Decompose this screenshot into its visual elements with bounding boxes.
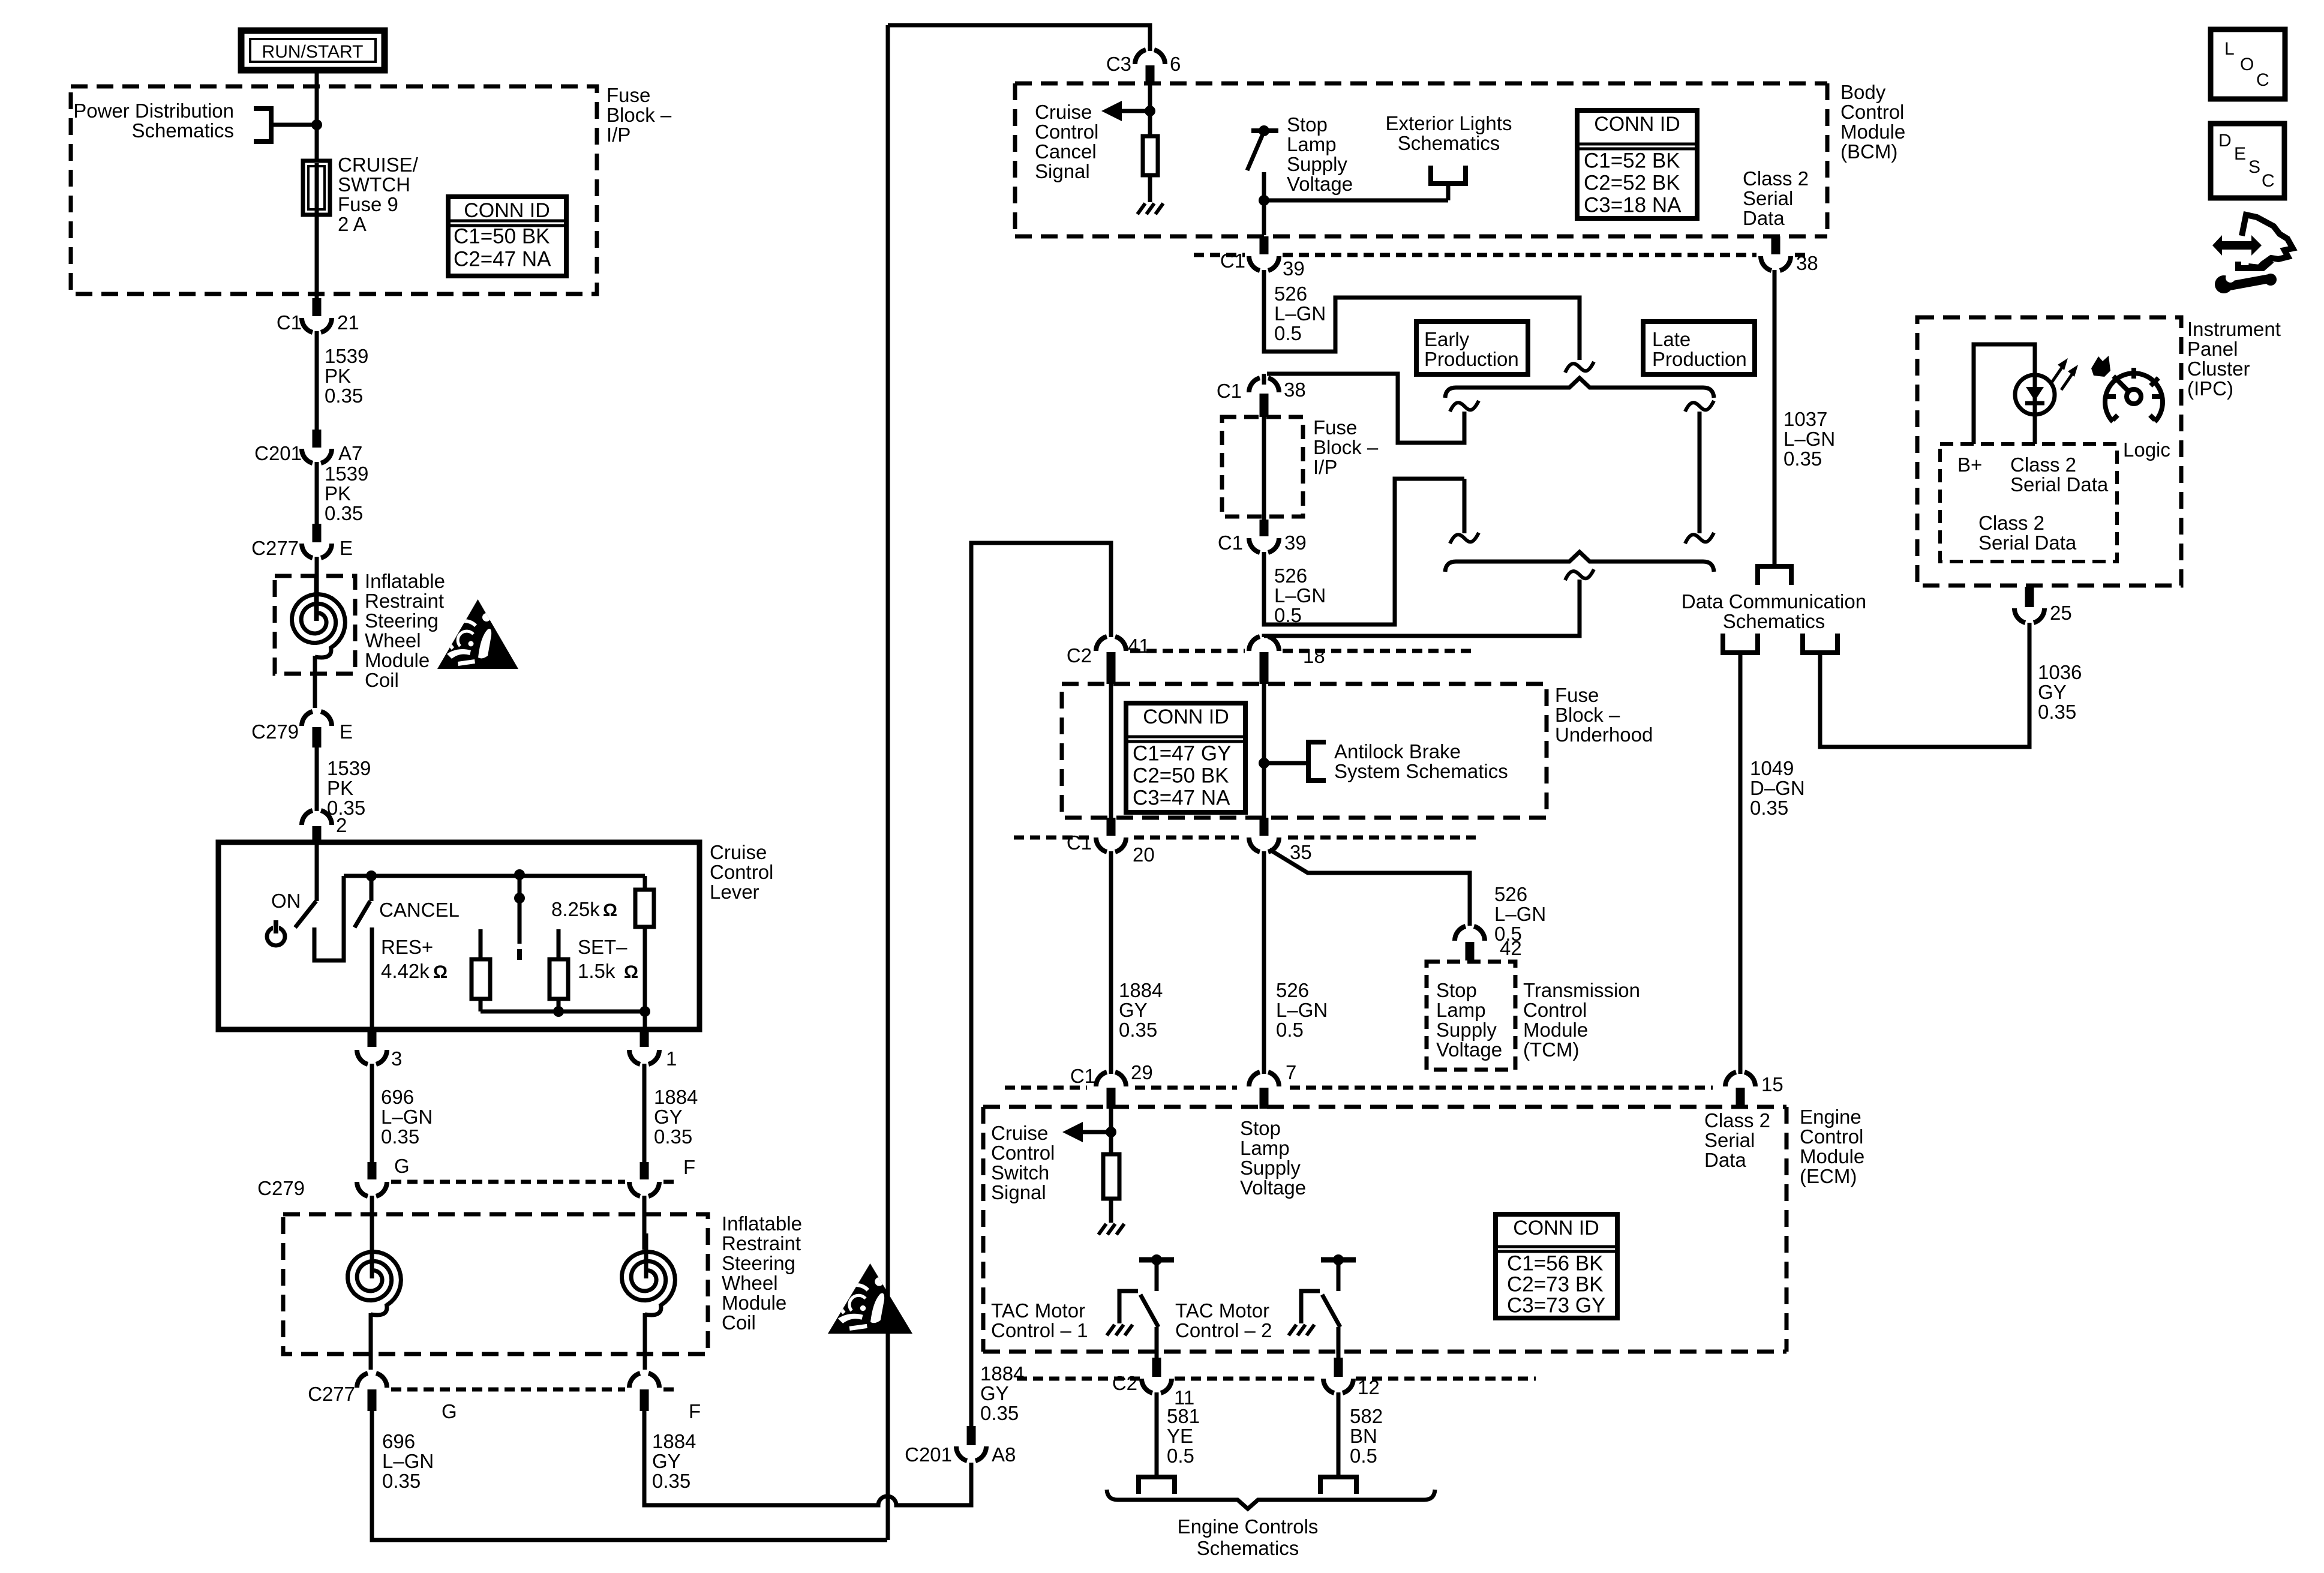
LED indicator IPC	[2015, 375, 2055, 415]
svg-text:TAC Motor: TAC Motor	[991, 1299, 1085, 1322]
wire label 526 L-GN 0.5 (d)	[1276, 979, 1328, 1041]
svg-text:Class 2: Class 2	[1743, 167, 1809, 190]
wire label 1884 GY 0.35 (lower)	[652, 1430, 696, 1492]
connector C1-21	[277, 298, 359, 334]
svg-text:Transmission: Transmission	[1523, 979, 1640, 1001]
coil dashed box upper	[275, 576, 355, 674]
svg-text:C1=47 GY: C1=47 GY	[1133, 742, 1231, 766]
label G lower	[442, 1400, 457, 1422]
LED light arrows	[2051, 358, 2078, 390]
fuse block I/P dashed box	[71, 86, 597, 294]
svg-text:42: 42	[1500, 937, 1522, 959]
svg-text:0.35: 0.35	[2038, 701, 2076, 723]
svg-text:Wheel: Wheel	[722, 1272, 778, 1294]
svg-text:PK: PK	[327, 777, 353, 799]
svg-text:39: 39	[1284, 532, 1307, 554]
svg-text:Supply: Supply	[1287, 153, 1347, 175]
connector 15	[1725, 1072, 1783, 1109]
svg-text:Class 2: Class 2	[2010, 454, 2076, 476]
label SET- 1.5k	[578, 936, 638, 982]
wire inside small fuse box	[1262, 417, 1266, 520]
svg-text:C1: C1	[1070, 1065, 1095, 1087]
steering coil lower-right spiral	[622, 1233, 675, 1315]
junction dot wiper tap	[514, 869, 525, 880]
fuse F9 CRUISE/SWTCH	[303, 161, 330, 215]
wire 12 down	[1337, 1392, 1341, 1476]
wiper switch stub	[517, 949, 522, 960]
wire break C1-39 end	[1565, 362, 1594, 373]
wire power distribution tap	[271, 123, 317, 127]
svg-text:CONN ID: CONN ID	[464, 199, 550, 222]
svg-text:Late: Late	[1652, 328, 1691, 350]
svg-text:0.5: 0.5	[1276, 1019, 1304, 1041]
wire lever pin2 down	[315, 845, 319, 901]
wire break late lower	[1685, 533, 1714, 544]
svg-text:39: 39	[1283, 257, 1305, 280]
wire pin1 inside lever	[643, 1011, 647, 1029]
svg-text:0.35: 0.35	[654, 1125, 692, 1148]
svg-text:L–GN: L–GN	[1494, 903, 1546, 925]
wire stop lamp down to C1-39	[1262, 200, 1266, 235]
svg-text:C1=52 BK: C1=52 BK	[1584, 149, 1680, 173]
wire cancel to pin3	[370, 927, 374, 1029]
wire C279-G to coil2a	[370, 1196, 374, 1250]
svg-text:Instrument: Instrument	[2187, 318, 2281, 340]
label Fuse Block IP small	[1313, 416, 1379, 478]
resistor cancel signal BCM	[1143, 111, 1158, 202]
wire C1-39-II loop up	[1264, 479, 1464, 625]
wire 3 to C279-G	[370, 1064, 374, 1162]
svg-text:F: F	[689, 1400, 701, 1422]
svg-text:2: 2	[336, 814, 347, 836]
svg-text:Module: Module	[722, 1292, 786, 1314]
svg-text:Block –: Block –	[1313, 436, 1379, 458]
junction dot cruise switch signal	[1106, 1127, 1116, 1137]
stop lamp switch blade	[1247, 136, 1262, 170]
svg-text:Control: Control	[991, 1142, 1055, 1164]
wire C279-F to coil2b	[642, 1196, 647, 1250]
svg-text:696: 696	[382, 1430, 415, 1452]
svg-text:526: 526	[1274, 565, 1307, 587]
off-page bracket exterior lights	[1431, 166, 1466, 200]
TAC motor switch 2	[1289, 1254, 1356, 1358]
svg-text:L–GN: L–GN	[1783, 428, 1835, 450]
svg-text:C2=50 BK: C2=50 BK	[1133, 764, 1229, 788]
svg-text:C1=56 BK: C1=56 BK	[1507, 1252, 1604, 1275]
svg-text:Engine Controls: Engine Controls	[1178, 1515, 1319, 1538]
svg-text:C1: C1	[1217, 380, 1242, 402]
svg-text:Class 2: Class 2	[1978, 512, 2044, 534]
svg-text:Cancel: Cancel	[1035, 140, 1097, 163]
svg-text:L–GN: L–GN	[1274, 584, 1326, 607]
svg-text:1884: 1884	[654, 1086, 698, 1108]
svg-text:Schematics: Schematics	[1197, 1537, 1299, 1559]
svg-text:C277: C277	[251, 537, 299, 559]
connector row C1-20/35	[1014, 836, 1476, 840]
label Cruise Control Switch Signal	[991, 1122, 1055, 1203]
svg-text:Control: Control	[1800, 1125, 1863, 1148]
svg-text:0.35: 0.35	[1783, 448, 1822, 470]
resistor cruise switch signal	[1103, 1132, 1119, 1223]
svg-text:C: C	[2256, 70, 2269, 90]
svg-text:Power Distribution: Power Distribution	[73, 100, 234, 122]
connector 35	[1249, 818, 1312, 863]
off-page bracket power distribution	[254, 109, 271, 142]
connector 38 BCM	[1761, 236, 1818, 274]
svg-text:Class 2: Class 2	[1704, 1109, 1770, 1131]
svg-text:C1: C1	[1067, 831, 1092, 854]
wire break early lower	[1450, 533, 1479, 544]
svg-text:G: G	[394, 1155, 410, 1177]
connector 7	[1249, 1061, 1296, 1109]
svg-text:Lamp: Lamp	[1240, 1137, 1290, 1159]
svg-text:1539: 1539	[325, 345, 368, 367]
svg-text:0.35: 0.35	[325, 385, 363, 407]
svg-text:35: 35	[1290, 841, 1312, 863]
CONN ID table BCM	[1577, 110, 1697, 218]
junction dot power tap	[311, 119, 322, 130]
svg-text:SET–: SET–	[578, 936, 627, 958]
CONN ID table ECM	[1496, 1214, 1617, 1318]
svg-text:3: 3	[391, 1047, 402, 1070]
wiper switch upper	[514, 875, 525, 944]
instrument panel cluster dashed box	[1917, 317, 2181, 586]
fuse block IP small dashed box	[1222, 417, 1303, 517]
svg-text:GY: GY	[1119, 999, 1148, 1021]
svg-text:RES+: RES+	[381, 936, 433, 958]
svg-text:Control: Control	[1523, 999, 1587, 1021]
label Inflatable Restraint Steering Wheel Module Coil (upper)	[365, 570, 445, 691]
svg-text:Control – 2: Control – 2	[1175, 1319, 1272, 1341]
svg-text:Early: Early	[1424, 328, 1470, 350]
wrench icon	[2215, 273, 2277, 293]
svg-text:Signal: Signal	[991, 1181, 1046, 1203]
LOC reference box	[2211, 29, 2285, 99]
connector C277-F	[629, 1373, 659, 1411]
brace production lower	[1445, 552, 1714, 572]
wire label 1884 GY 0.35 (ECM)	[1119, 979, 1163, 1041]
wire C277-G down-left run	[372, 1411, 887, 1540]
label Stop Lamp Supply Voltage (BCM)	[1287, 113, 1353, 195]
svg-text:Fuse: Fuse	[606, 84, 650, 106]
svg-text:L–GN: L–GN	[1276, 999, 1328, 1021]
label Exterior Lights Schematics	[1386, 112, 1512, 154]
svg-text:D–GN: D–GN	[1750, 777, 1805, 799]
svg-text:38: 38	[1284, 379, 1306, 401]
svg-text:C1: C1	[1220, 250, 1245, 272]
svg-text:F: F	[683, 1156, 695, 1178]
airbag warning icon lower	[828, 1263, 912, 1334]
wire label 1037 L-GN 0.35	[1783, 408, 1835, 470]
svg-text:GY: GY	[980, 1382, 1009, 1404]
svg-text:Lever: Lever	[710, 881, 759, 903]
label Data Communication Schematics	[1682, 590, 1866, 632]
svg-text:Cluster: Cluster	[2187, 358, 2250, 380]
svg-text:8.25k: 8.25k	[551, 898, 600, 920]
svg-text:1884: 1884	[1119, 979, 1163, 1001]
connector 42 TCM	[1455, 926, 1522, 960]
label Engine Controls Schematics	[1178, 1515, 1319, 1559]
CONN ID table fuse block IP	[448, 197, 566, 276]
svg-text:O: O	[2240, 55, 2254, 74]
label Fuse Block - I/P	[606, 84, 672, 146]
wire label 1539 PK 0.35 (c)	[327, 757, 371, 819]
svg-text:C3: C3	[1106, 53, 1131, 75]
connector 1 lever	[629, 1029, 677, 1070]
svg-text:Stop: Stop	[1287, 113, 1328, 136]
wire RUN/START to fuse block	[315, 70, 319, 88]
label Power Distribution Schematics	[73, 100, 234, 142]
svg-text:CONN ID: CONN ID	[1513, 1217, 1599, 1239]
label Class 2 Serial Data (IPC-2)	[1978, 512, 2077, 554]
svg-text:1049: 1049	[1750, 757, 1794, 779]
junction dot cancel tap	[366, 870, 377, 881]
resistor SET- 1.5k	[550, 929, 568, 1011]
svg-text:Block –: Block –	[606, 104, 672, 126]
late production box	[1643, 322, 1755, 374]
svg-text:Fuse 9: Fuse 9	[338, 193, 398, 215]
coil dashed box lower	[283, 1214, 708, 1354]
svg-text:I/P: I/P	[606, 124, 630, 146]
svg-text:CANCEL: CANCEL	[379, 899, 460, 921]
svg-text:Schematics: Schematics	[1398, 132, 1500, 154]
svg-text:YE: YE	[1167, 1425, 1193, 1447]
svg-text:Signal: Signal	[1035, 160, 1090, 182]
wire C3-6 to cancel dot	[1148, 83, 1152, 111]
svg-text:Supply: Supply	[1436, 1019, 1497, 1041]
svg-text:C277: C277	[308, 1383, 355, 1405]
connector 18 fuse UH	[1249, 637, 1325, 684]
svg-text:Control: Control	[710, 861, 773, 883]
wire stop lamp to exterior lights	[1264, 199, 1448, 203]
svg-text:(BCM): (BCM)	[1840, 140, 1897, 163]
wire fuse to C1-21	[315, 212, 319, 298]
svg-text:A7: A7	[338, 442, 362, 464]
svg-text:696: 696	[381, 1086, 414, 1108]
wire coil2b to C277-F	[643, 1313, 647, 1370]
wire label 1884 GY 0.35 (A8)	[980, 1362, 1024, 1424]
wire C1-39 loop to early production	[1264, 270, 1580, 360]
svg-text:C201: C201	[254, 442, 302, 464]
wire lower brace to 18	[1264, 580, 1580, 637]
svg-text:E: E	[340, 537, 353, 559]
svg-text:0.5: 0.5	[1167, 1445, 1194, 1467]
off-page bracket 1049 feed	[1723, 634, 1758, 653]
wire antilock tap	[1264, 761, 1308, 766]
label Cruise Control Lever	[710, 841, 773, 903]
svg-text:Body: Body	[1840, 81, 1886, 103]
connector 2 cruise lever	[302, 810, 347, 843]
svg-text:C2=47 NA: C2=47 NA	[454, 248, 551, 271]
svg-text:4.42k: 4.42k	[381, 960, 430, 982]
svg-text:Ω: Ω	[624, 962, 638, 982]
wire late production segment	[1698, 412, 1702, 533]
svg-text:L–GN: L–GN	[382, 1450, 434, 1472]
svg-text:(TCM): (TCM)	[1523, 1038, 1579, 1061]
label TAC Motor Control - 1	[991, 1299, 1088, 1341]
svg-text:526: 526	[1276, 979, 1309, 1001]
svg-text:CONN ID: CONN ID	[1143, 706, 1229, 728]
svg-text:C279: C279	[251, 721, 299, 743]
wire 41 to 20 inside box	[1109, 684, 1113, 822]
svg-text:Voltage: Voltage	[1240, 1176, 1306, 1199]
svg-text:1539: 1539	[325, 463, 368, 485]
svg-text:Control: Control	[1035, 121, 1098, 143]
wire C1-29 to dot	[1109, 1109, 1113, 1132]
fuse block underhood dashed box	[1062, 684, 1547, 818]
label Fuse Block Underhood	[1555, 684, 1653, 746]
label ON	[271, 890, 301, 912]
svg-text:0.35: 0.35	[382, 1470, 421, 1492]
connector 3 lever	[357, 1029, 402, 1070]
svg-text:E: E	[2234, 144, 2246, 164]
svg-text:526: 526	[1274, 283, 1307, 305]
svg-text:Production: Production	[1652, 348, 1747, 370]
svg-text:C1: C1	[1218, 532, 1243, 554]
label F lower	[689, 1400, 701, 1422]
svg-text:Ω: Ω	[433, 962, 448, 982]
svg-text:CONN ID: CONN ID	[1594, 113, 1680, 136]
svg-text:Serial Data: Serial Data	[1978, 532, 2077, 554]
svg-text:Cruise: Cruise	[1035, 101, 1092, 123]
svg-text:41: 41	[1128, 635, 1150, 657]
early production box	[1416, 322, 1528, 374]
label G upper	[394, 1155, 410, 1177]
svg-text:1037: 1037	[1783, 408, 1827, 430]
wire break below lower brace	[1565, 569, 1594, 580]
svg-text:L: L	[2224, 39, 2235, 59]
svg-text:C3=18 NA: C3=18 NA	[1584, 194, 1682, 217]
label Transmission Control Module TCM	[1523, 979, 1640, 1061]
TAC motor switch 1	[1107, 1254, 1174, 1358]
stop lamp switch bar	[1251, 125, 1278, 136]
svg-text:System Schematics: System Schematics	[1334, 760, 1508, 782]
wire early production lower link	[1463, 479, 1467, 533]
CONN ID table fuse UH	[1126, 703, 1245, 812]
svg-text:Steering: Steering	[722, 1252, 795, 1274]
gauge icon IPC	[2105, 368, 2163, 422]
svg-text:I/P: I/P	[1313, 456, 1337, 478]
svg-text:B+: B+	[1957, 454, 1982, 476]
svg-text:(IPC): (IPC)	[2187, 377, 2233, 400]
connector C277-E	[251, 524, 353, 559]
svg-text:1036: 1036	[2038, 661, 2082, 683]
off-page bracket 1037	[1758, 566, 1791, 585]
connector C279-E	[251, 712, 353, 748]
svg-text:Panel: Panel	[2187, 338, 2238, 360]
junction dot antilock tap	[1259, 758, 1269, 769]
svg-text:0.5: 0.5	[1350, 1445, 1377, 1467]
svg-text:Control: Control	[1840, 101, 1904, 123]
cruise control lever box	[218, 842, 699, 1029]
connector row ECM top	[1005, 1086, 1713, 1090]
svg-text:1.5k: 1.5k	[578, 960, 615, 982]
svg-text:Serial: Serial	[1743, 187, 1793, 209]
wire coil to C279-E	[313, 656, 317, 708]
resistor 8.25k	[635, 876, 654, 1011]
svg-text:1539: 1539	[327, 757, 371, 779]
brace engine controls	[1107, 1490, 1435, 1509]
svg-text:C: C	[2262, 171, 2275, 191]
svg-text:C279: C279	[257, 1177, 305, 1199]
ground ECM cruise signal	[1098, 1224, 1124, 1235]
wire label 581 YE 0.5	[1167, 1405, 1200, 1467]
svg-text:526: 526	[1494, 883, 1527, 905]
svg-text:L–GN: L–GN	[381, 1106, 433, 1128]
svg-text:Ω: Ω	[603, 900, 617, 920]
svg-text:1884: 1884	[980, 1362, 1024, 1385]
svg-text:Module: Module	[1800, 1145, 1864, 1167]
wire 1049 down to 15	[1739, 653, 1743, 1074]
label Body Control Module BCM	[1840, 81, 1905, 163]
svg-text:0.35: 0.35	[1750, 797, 1788, 819]
label Antilock Brake System Schematics	[1334, 740, 1508, 782]
svg-text:ON: ON	[271, 890, 301, 912]
wire 1036 run to 25	[1820, 623, 2029, 747]
svg-text:Module: Module	[1523, 1019, 1588, 1041]
wire label 526 L-GN 0.5 (c)	[1494, 883, 1546, 945]
wire stop lamp switch lower	[1262, 172, 1266, 200]
connector 12	[1323, 1358, 1380, 1398]
svg-text:29: 29	[1131, 1061, 1153, 1083]
svg-text:2 A: 2 A	[338, 213, 367, 235]
body control module BCM dashed box	[1015, 83, 1827, 236]
connector C1-39 second	[1218, 520, 1307, 554]
wire early production upper link	[1267, 374, 1464, 443]
label Class 2 Serial Data (IPC-1)	[2010, 454, 2109, 496]
svg-text:C1: C1	[277, 311, 302, 334]
svg-text:C3=73 GY: C3=73 GY	[1507, 1294, 1605, 1317]
wire cancel tap down	[370, 876, 374, 901]
wire label 526 L-GN 0.5 (a)	[1274, 283, 1326, 344]
label Stop Lamp Supply Voltage TCM	[1436, 979, 1502, 1061]
wire coil2a to C277-G	[369, 1313, 373, 1370]
svg-text:0.35: 0.35	[980, 1402, 1019, 1424]
svg-text:Steering: Steering	[365, 610, 439, 632]
switch blade ON	[295, 901, 316, 927]
wire label 582 BN 0.5	[1350, 1405, 1383, 1467]
wire left tall 1480	[886, 25, 890, 1540]
svg-text:0.35: 0.35	[1119, 1019, 1157, 1041]
svg-text:Switch: Switch	[991, 1161, 1049, 1184]
steering coil upper spiral	[292, 576, 346, 658]
svg-text:RUN/START: RUN/START	[262, 42, 364, 62]
ECM dashed box	[983, 1107, 1786, 1352]
power feed tag RUN/START	[241, 31, 385, 70]
arrow cruise control switch signal	[1062, 1122, 1111, 1142]
junction dot cancel signal	[1145, 106, 1155, 116]
svg-text:Stop: Stop	[1436, 979, 1477, 1001]
svg-text:(ECM): (ECM)	[1800, 1165, 1857, 1187]
svg-text:Fuse: Fuse	[1313, 416, 1357, 439]
svg-text:PK: PK	[325, 482, 351, 505]
connector C277-G	[308, 1373, 387, 1411]
svg-text:Module: Module	[1840, 121, 1905, 143]
svg-text:CRUISE/: CRUISE/	[338, 154, 419, 176]
svg-text:Antilock Brake: Antilock Brake	[1334, 740, 1461, 763]
wire B+ loop	[1974, 344, 2035, 444]
svg-text:Voltage: Voltage	[1287, 173, 1353, 195]
ON contact hook	[314, 876, 344, 960]
svg-text:TAC Motor: TAC Motor	[1175, 1299, 1269, 1322]
wire C1-21 to C201-A7	[315, 331, 319, 430]
svg-text:L–GN: L–GN	[1274, 302, 1326, 325]
steering coil lower-left spiral	[348, 1233, 401, 1315]
wire C201-A7 to C277-E	[315, 462, 319, 524]
label Logic	[2123, 439, 2170, 461]
svg-text:SWTCH: SWTCH	[338, 173, 410, 196]
label CANCEL	[379, 899, 460, 921]
